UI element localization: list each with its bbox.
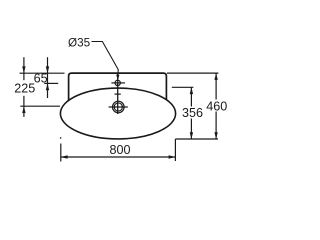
left extension line at drain level: [20, 105, 60, 107]
centerline tick: [115, 93, 121, 95]
right extension line at bowl top: [172, 86, 194, 88]
leader arrowhead: [116, 75, 119, 81]
dimension line 225: [23, 57, 25, 80]
drain outer circle: [113, 101, 125, 113]
svg-text:460: 460: [206, 99, 227, 113]
460 bottom arrow: [214, 132, 217, 139]
225 top arrow (points down to back-edge line): [22, 66, 25, 73]
washbasin back ledge rectangle: [69, 73, 167, 100]
right extension line from back edge: [167, 72, 218, 74]
460 top arrow: [214, 73, 217, 80]
vertical centerline through holes: [117, 73, 119, 114]
left extension line at back edge: [20, 72, 65, 74]
dimension line 460: [215, 73, 217, 99]
right bottom extension line at bowl front: [175, 138, 218, 140]
356 bottom arrow: [190, 132, 193, 139]
65 top arrow (points down to back-edge line): [46, 66, 49, 73]
washbasin bowl ellipse: [60, 88, 175, 139]
800 left arrow: [61, 155, 68, 158]
left extension line at faucet level: [44, 82, 58, 84]
356 top arrow: [190, 87, 193, 94]
drain inner circle: [114, 103, 122, 111]
bottom left extension line: [60, 144, 62, 162]
bottom left extension dot: [60, 137, 61, 138]
faucet hole crosshair: [111, 82, 125, 84]
svg-text:800: 800: [110, 143, 131, 157]
svg-text:356: 356: [182, 106, 203, 120]
svg-text:Ø35: Ø35: [68, 36, 91, 49]
dimension line 800: [61, 156, 176, 158]
faucet hole circle: [115, 80, 120, 85]
svg-text:225: 225: [14, 82, 35, 96]
65 bottom arrow (points up to faucet-level line): [46, 83, 49, 90]
bottom right extension line: [174, 139, 176, 161]
225 bottom arrow (points up to drain line): [22, 106, 25, 113]
drain crosshair horizontal: [109, 106, 128, 108]
dimension line 65: [47, 57, 49, 98]
leader line from Ø35 label to faucet hole: [92, 42, 119, 76]
dimension line 356: [190, 87, 192, 106]
svg-text:65: 65: [34, 72, 48, 86]
800 right arrow: [169, 155, 176, 158]
